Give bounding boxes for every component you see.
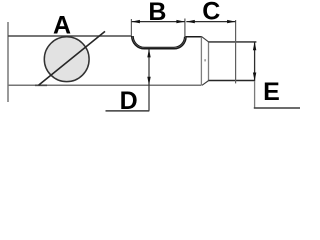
svg-text:C: C [202,0,220,26]
wire: C section bottom line [209,80,255,82]
node: small center mark on step face [204,59,205,61]
step chamfer top [201,36,208,41]
groove inner (double) line [133,36,184,47]
wire: left end vertical line [7,22,9,102]
dimension D vertical line with arrows [148,49,150,111]
dimension line C [186,21,235,23]
step face vertical (large dia end) [200,36,202,85]
step small-dia edge vertical [208,42,210,81]
junction foot where diagonal meets bottom line [35,84,47,86]
dimension line B [131,21,185,23]
dimension B/C shared extension line [184,19,186,38]
label D underline [106,110,150,112]
svg-text:E: E [263,78,280,106]
wire: C section top line [209,41,257,43]
svg-text:B: B [148,0,166,26]
wire: diagonal line through circle [39,31,106,85]
groove outer profile [132,36,202,49]
svg-text:A: A [53,11,71,39]
dimension B extension line left [130,19,132,36]
step chamfer bottom [202,81,209,86]
svg-text:D: D [120,87,138,115]
dimension E vertical line with arrows [254,42,256,81]
wire: bottom line of main cylinder [8,84,201,86]
wire: top line of main cylinder [8,35,132,37]
node A : gray circle face with diagonal [44,37,89,82]
dimension C right extension line [235,20,237,83]
label E underline [254,107,300,109]
